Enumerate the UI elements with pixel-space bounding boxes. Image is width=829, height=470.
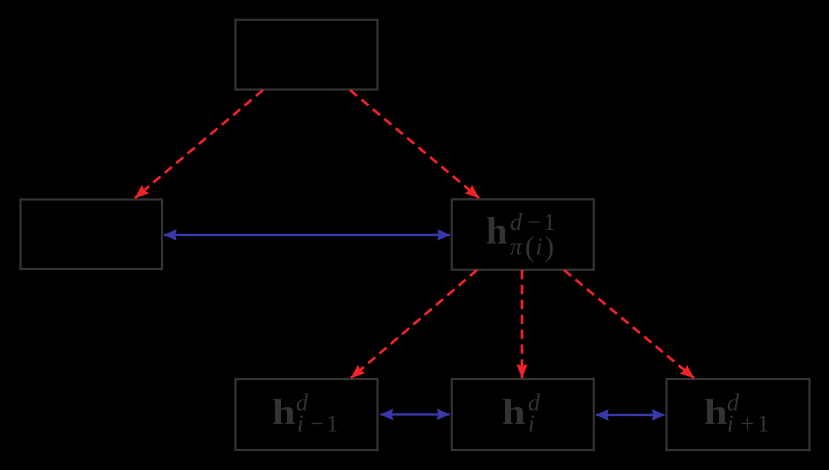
arrow red dashed: h_pi(i) box to h_i-1 box bbox=[351, 270, 477, 378]
svg-text:i+1: i+1 bbox=[727, 412, 772, 438]
arrow blue double: h_i box to h_i+1 box bbox=[596, 414, 665, 416]
box h_i+1^d bbox=[667, 379, 810, 450]
arrow blue double: left box to h_pi(i) box bbox=[164, 234, 450, 236]
label h_i+1^d bbox=[704, 391, 772, 438]
svg-text:π(i): π(i) bbox=[510, 231, 554, 263]
arrow red dashed: top box to left box bbox=[135, 90, 263, 198]
label h_pi(i)^(d-1) bbox=[486, 210, 558, 263]
label h_i-1^d bbox=[272, 391, 341, 438]
label h_i^d bbox=[502, 391, 541, 438]
arrow red dashed: top box to h_pi(i) box bbox=[350, 90, 479, 198]
box left (empty) bbox=[21, 200, 163, 270]
svg-text:h: h bbox=[704, 392, 728, 432]
arrow blue double: h_i-1 box to h_i box bbox=[381, 413, 450, 415]
box top (root, empty) bbox=[236, 20, 378, 90]
svg-text:h: h bbox=[272, 392, 296, 432]
box h_i^d bbox=[452, 379, 594, 450]
svg-text:i−1: i−1 bbox=[297, 412, 341, 438]
arrow red dashed: h_pi(i) box to h_i+1 box bbox=[564, 270, 694, 378]
box h_pi(i)^(d-1) bbox=[452, 199, 594, 269]
svg-text:h: h bbox=[486, 211, 508, 253]
svg-text:h: h bbox=[502, 392, 526, 432]
box h_i-1^d bbox=[236, 379, 378, 450]
svg-text:i: i bbox=[528, 412, 535, 438]
arrow red dashed: h_pi(i) box to h_i box bbox=[521, 270, 524, 378]
